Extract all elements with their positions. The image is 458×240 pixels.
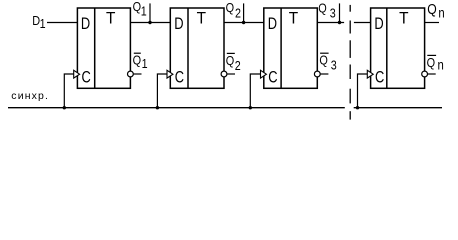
svg-text:T: T xyxy=(289,10,299,27)
U3 dynamic clock input triangle xyxy=(261,70,267,78)
wire Q2 output stub xyxy=(243,3,245,22)
svg-text:Q: Q xyxy=(318,0,326,15)
junction clock/U3 xyxy=(249,106,252,109)
svg-text:Q: Q xyxy=(226,53,234,68)
junction node Q1 xyxy=(148,21,151,24)
junction node Q3 xyxy=(338,21,341,24)
flip-flop U3 box xyxy=(264,8,318,88)
wire U1 Q to U2 D xyxy=(130,22,170,24)
wire clock riser to U1 C xyxy=(64,74,74,108)
wire U4 inverted output stub xyxy=(428,73,436,75)
svg-text:T: T xyxy=(197,10,207,27)
wire clock riser to U4 C xyxy=(358,74,368,108)
svg-text:n: n xyxy=(438,57,444,72)
U2 dynamic clock input triangle xyxy=(167,70,173,78)
U2 inverted output circle xyxy=(221,71,227,77)
U4 inverted output circle xyxy=(422,71,428,77)
clock bus (right of break) xyxy=(354,107,442,109)
svg-text:3: 3 xyxy=(331,58,337,73)
junction node Q2 xyxy=(242,21,245,24)
svg-text:T: T xyxy=(106,10,116,27)
U3 inverted output circle xyxy=(314,71,320,77)
flip-flop U2 box xyxy=(170,8,224,88)
wire Q3 output stub xyxy=(339,3,341,22)
svg-text:Q: Q xyxy=(427,55,435,70)
svg-text:D: D xyxy=(374,16,383,34)
wire D1 input to U1 xyxy=(47,22,77,24)
junction clock/U4 xyxy=(356,106,359,109)
svg-text:Q: Q xyxy=(133,53,141,68)
U4 dynamic clock input triangle xyxy=(367,70,373,78)
svg-text:1: 1 xyxy=(40,16,46,31)
wire U2 inverted output stub xyxy=(227,73,235,75)
svg-text:Q: Q xyxy=(133,0,141,14)
svg-text:D: D xyxy=(174,16,183,34)
wire U4 Q output Qn xyxy=(425,22,439,24)
junction clock/U2 xyxy=(156,106,159,109)
svg-text:D: D xyxy=(81,16,90,34)
svg-text:2: 2 xyxy=(235,6,241,21)
svg-text:Q: Q xyxy=(319,53,327,68)
wire U3 inverted output stub xyxy=(320,73,328,75)
svg-text:C: C xyxy=(375,69,385,87)
wire Q1 output stub xyxy=(149,3,151,22)
svg-text:C: C xyxy=(175,69,185,87)
flip-flop U1 box xyxy=(77,8,130,88)
wire clock riser to U3 C xyxy=(250,74,260,108)
svg-text:3: 3 xyxy=(330,6,336,21)
svg-text:Q: Q xyxy=(427,1,436,17)
wire U3 Q toward U4 D (right of break) xyxy=(354,22,371,24)
svg-text:2: 2 xyxy=(235,58,241,73)
svg-text:Q: Q xyxy=(226,0,234,15)
svg-text:T: T xyxy=(399,10,409,27)
clock bus (left of break) xyxy=(8,107,345,109)
U1 inverted output circle xyxy=(127,71,133,77)
flip-flop U4 box xyxy=(371,8,425,88)
dashed continuation separator xyxy=(349,5,351,120)
svg-text:C: C xyxy=(268,69,278,87)
svg-text:n: n xyxy=(438,6,444,21)
U1 dynamic clock input triangle xyxy=(74,70,80,78)
wire U3 Q toward U4 D (left of break) xyxy=(317,22,344,24)
wire U2 Q to U3 D xyxy=(224,22,264,24)
svg-text:1: 1 xyxy=(142,56,148,71)
svg-text:синхр.: синхр. xyxy=(11,90,49,102)
wire U1 inverted output stub xyxy=(133,73,141,75)
junction clock/U1 xyxy=(63,106,66,109)
svg-text:D: D xyxy=(268,16,277,34)
svg-text:C: C xyxy=(82,69,92,87)
svg-text:1: 1 xyxy=(141,4,147,19)
wire clock riser to U2 C xyxy=(157,74,167,108)
